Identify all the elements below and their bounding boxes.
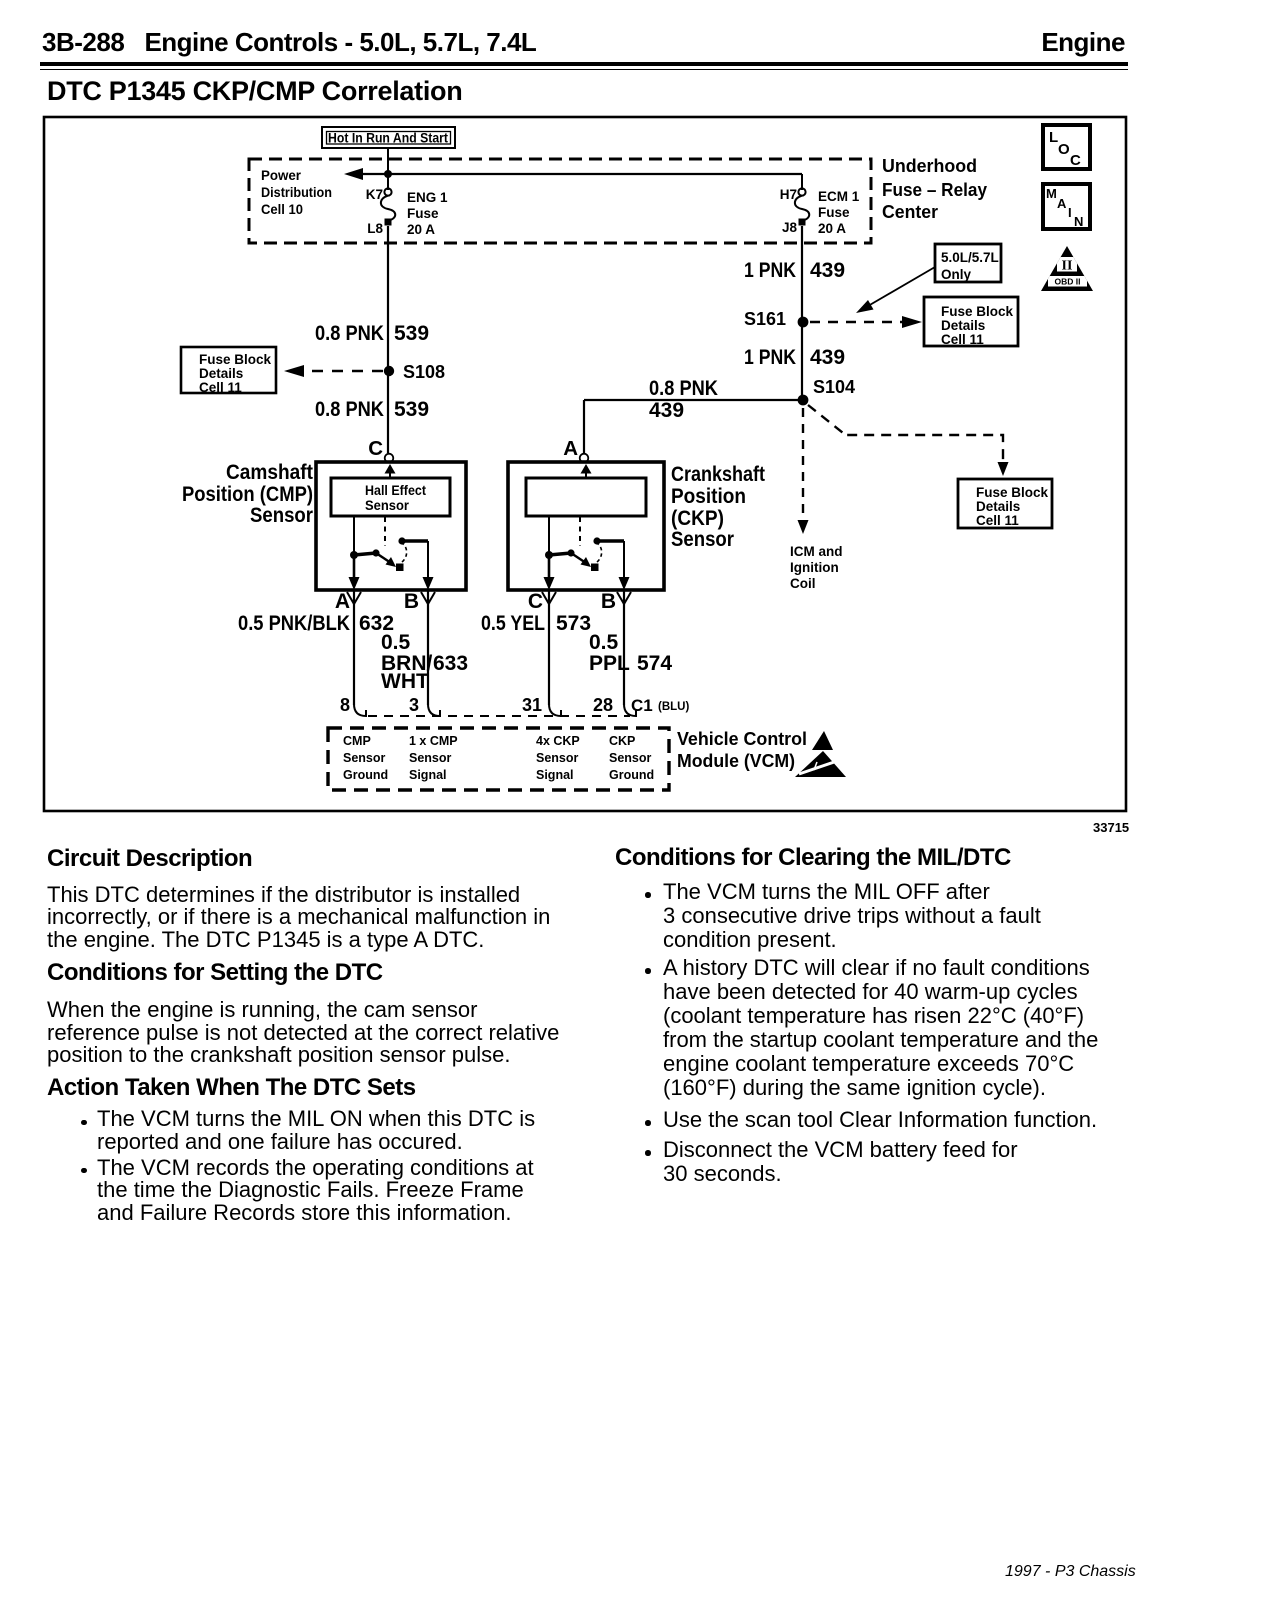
svg-text:3: 3 xyxy=(409,695,419,715)
svg-text:CMP: CMP xyxy=(343,734,371,748)
svg-text:Module (VCM): Module (VCM) xyxy=(677,751,795,771)
feed wire with left arrow xyxy=(344,168,802,180)
svg-text:I: I xyxy=(1068,205,1072,220)
VCM pin function labels xyxy=(343,734,654,782)
svg-text:Underhood: Underhood xyxy=(882,156,977,176)
svg-text:N: N xyxy=(1074,214,1083,229)
svg-text:Details: Details xyxy=(941,318,985,333)
svg-text:OBD II: OBD II xyxy=(1055,277,1081,287)
svg-text:0.8 PNK: 0.8 PNK xyxy=(315,398,384,421)
Fuse Block Details Cell 11 box (middle right) xyxy=(924,297,1018,347)
svg-text:20 A: 20 A xyxy=(818,221,846,236)
svg-text:Hot In Run And Start: Hot In Run And Start xyxy=(328,131,448,146)
svg-text:S108: S108 xyxy=(403,362,445,382)
svg-text:8: 8 xyxy=(340,695,350,715)
Hot In Run And Start box xyxy=(322,127,455,148)
connector V at CKP C xyxy=(542,592,556,604)
svg-text:II: II xyxy=(1062,259,1073,274)
svg-text:Fuse Block: Fuse Block xyxy=(941,304,1014,319)
svg-text:L8: L8 xyxy=(367,221,383,236)
svg-text:Cell 10: Cell 10 xyxy=(261,202,303,217)
splice S161 xyxy=(798,317,809,328)
dashed wire to fuse block details (left) xyxy=(284,365,383,377)
svg-text:574: 574 xyxy=(637,652,672,675)
svg-text:Camshaft: Camshaft xyxy=(226,461,313,484)
svg-text:Distribution: Distribution xyxy=(261,185,332,200)
wire label 0.8 PNK 539 lower xyxy=(315,398,429,421)
schematic frame xyxy=(44,117,1126,811)
CMP output arrows at A and B xyxy=(349,557,434,590)
svg-text:Power: Power xyxy=(261,168,302,183)
svg-text:Fuse Block: Fuse Block xyxy=(199,352,272,367)
MAIN icon xyxy=(1043,184,1090,229)
svg-text:Details: Details xyxy=(976,499,1020,514)
svg-text:539: 539 xyxy=(394,322,429,345)
CKP inner element box xyxy=(526,478,646,516)
arrow from 5.0L box to S161 xyxy=(856,267,935,313)
Fuse Block Details Cell 11 box (left) xyxy=(181,347,276,395)
svg-text:PPL: PPL xyxy=(589,652,630,675)
wire label 1 PNK 439 lower xyxy=(744,346,845,369)
svg-text:ECM 1: ECM 1 xyxy=(818,189,860,204)
svg-text:O: O xyxy=(1058,141,1070,158)
svg-text:0.5 YEL: 0.5 YEL xyxy=(481,612,545,635)
page header right xyxy=(1041,29,1125,55)
wire label 0.5 YEL 573 xyxy=(481,612,591,635)
svg-text:Center: Center xyxy=(882,202,938,222)
terminal C of CMP xyxy=(368,437,393,462)
svg-text:ENG 1: ENG 1 xyxy=(407,190,448,205)
svg-text:1 PNK: 1 PNK xyxy=(744,259,796,282)
connector C1 label xyxy=(631,696,689,715)
svg-text:Signal: Signal xyxy=(409,768,447,782)
svg-text:Vehicle Control: Vehicle Control xyxy=(677,729,807,749)
figure number xyxy=(1093,820,1129,835)
svg-text:573: 573 xyxy=(556,612,591,635)
svg-text:J8: J8 xyxy=(782,220,798,235)
svg-text:Position: Position xyxy=(671,485,746,508)
connector hook pin 31 xyxy=(549,704,561,716)
svg-text:20 A: 20 A xyxy=(407,222,435,237)
svg-text:439: 439 xyxy=(810,259,845,282)
svg-text:B: B xyxy=(404,590,419,613)
svg-text:Details: Details xyxy=(199,366,243,381)
Underhood Fuse-Relay Center label xyxy=(882,156,987,222)
svg-text:0.8 PNK: 0.8 PNK xyxy=(649,377,718,400)
connector hook pin 28 xyxy=(624,704,636,716)
page header left xyxy=(42,29,536,55)
ESD symbol xyxy=(795,731,846,777)
svg-text:Sensor: Sensor xyxy=(365,498,410,513)
svg-text:1 PNK: 1 PNK xyxy=(744,346,796,369)
svg-text:28: 28 xyxy=(593,695,613,715)
OBD II icon xyxy=(1041,246,1093,291)
5.0L/5.7L Only box xyxy=(935,244,1001,282)
CMP switch internals xyxy=(350,516,428,578)
svg-text:C1: C1 xyxy=(631,696,653,715)
ICM and Ignition Coil label xyxy=(790,544,843,591)
fuse ECM1 value label xyxy=(818,189,860,236)
wire 439 vertical from ECM fuse xyxy=(801,226,803,400)
svg-text:Cell 11: Cell 11 xyxy=(976,513,1019,528)
wire label 1 PNK 439 upper xyxy=(744,259,845,282)
Power Distribution label xyxy=(261,168,332,217)
dashed wire S104 down to ICM xyxy=(798,408,809,534)
wire label 0.5 BRN/WHT 633 xyxy=(381,631,468,693)
svg-text:C: C xyxy=(1070,152,1081,169)
fuse ENG1 value label xyxy=(407,190,448,237)
wire 439 down to terminal A xyxy=(583,400,585,453)
svg-text:Sensor: Sensor xyxy=(409,751,452,765)
wire 632 xyxy=(353,590,355,705)
svg-text:ICM and: ICM and xyxy=(790,544,843,559)
svg-text:0.8 PNK: 0.8 PNK xyxy=(315,322,384,345)
connector V at CKP B xyxy=(617,592,631,604)
connector V at CMP B xyxy=(421,592,435,604)
svg-text:0.5: 0.5 xyxy=(381,631,411,654)
wire 573 xyxy=(548,590,550,705)
svg-text:439: 439 xyxy=(649,399,684,422)
connector hook pin 3 xyxy=(428,704,440,716)
wire 439 horizontal to CKP xyxy=(584,399,801,401)
svg-text:M: M xyxy=(1046,186,1057,201)
svg-text:439: 439 xyxy=(810,346,845,369)
svg-text:Ground: Ground xyxy=(609,768,654,782)
wire label 0.5 PNK/BLK 632 xyxy=(238,612,394,635)
arrow up to terminal C inside CMP xyxy=(385,464,396,478)
footer xyxy=(1005,1564,1136,1580)
wire label 0.8 PNK 539 upper xyxy=(315,322,429,345)
Power Distribution dashed box xyxy=(249,159,871,243)
CKP output arrows at C and B xyxy=(544,557,630,590)
svg-text:Cell 11: Cell 11 xyxy=(941,332,984,347)
svg-text:Signal: Signal xyxy=(536,768,574,782)
CKP sensor box xyxy=(508,462,664,590)
svg-text:Sensor: Sensor xyxy=(343,751,386,765)
wire down to ECM fuse xyxy=(801,174,803,190)
svg-text:A: A xyxy=(563,437,578,460)
svg-text:Sensor: Sensor xyxy=(536,751,579,765)
Crankshaft Position (CKP) Sensor label xyxy=(671,463,765,551)
wire label 0.8 PNK 439 xyxy=(649,377,718,422)
svg-text:C: C xyxy=(528,590,543,613)
Hall Effect Sensor box xyxy=(331,478,450,516)
VCM dashed box xyxy=(328,728,669,790)
svg-text:C: C xyxy=(368,437,383,460)
svg-text:H7: H7 xyxy=(780,187,797,202)
wire from Hot box down xyxy=(387,148,389,190)
svg-text:Fuse: Fuse xyxy=(407,206,439,221)
svg-text:Sensor: Sensor xyxy=(671,528,734,551)
arrow up to terminal A inside CKP xyxy=(581,464,592,478)
svg-text:Position (CMP): Position (CMP) xyxy=(182,483,313,506)
svg-text:0.5: 0.5 xyxy=(589,631,619,654)
svg-text:A: A xyxy=(335,590,350,613)
svg-text:4x CKP: 4x CKP xyxy=(536,734,580,748)
Vehicle Control Module (VCM) label xyxy=(677,729,807,771)
svg-text:Fuse – Relay: Fuse – Relay xyxy=(882,180,987,200)
svg-text:539: 539 xyxy=(394,398,429,421)
connector V at CMP A xyxy=(347,592,361,604)
Camshaft Position (CMP) Sensor label xyxy=(182,461,313,527)
page title xyxy=(47,78,462,105)
svg-text:Fuse: Fuse xyxy=(818,205,850,220)
Circuit Description section xyxy=(47,847,252,871)
svg-text:Crankshaft: Crankshaft xyxy=(671,463,765,486)
dashed wire S104 to fuse block details (lower right) xyxy=(808,405,1009,476)
svg-text:B: B xyxy=(601,590,616,613)
svg-text:Ground: Ground xyxy=(343,768,388,782)
svg-text:Sensor: Sensor xyxy=(250,504,313,527)
svg-text:0.5 PNK/BLK: 0.5 PNK/BLK xyxy=(238,612,350,635)
header rule xyxy=(40,62,1128,70)
wire label 0.5 PPL 574 xyxy=(589,631,672,675)
splice S108 xyxy=(384,366,394,376)
terminal A of CKP xyxy=(563,437,588,462)
svg-text:WHT: WHT xyxy=(381,670,429,693)
CKP switch internals xyxy=(545,516,624,578)
wire 633 xyxy=(427,590,429,705)
wire 574 xyxy=(623,590,625,705)
svg-text:Fuse Block: Fuse Block xyxy=(976,485,1049,500)
connector C1 dashed line xyxy=(368,715,630,717)
svg-text:CKP: CKP xyxy=(609,734,635,748)
svg-text:(BLU): (BLU) xyxy=(658,701,689,713)
svg-text:Coil: Coil xyxy=(790,576,816,591)
svg-text:Ignition: Ignition xyxy=(790,560,839,575)
CMP sensor box xyxy=(316,462,466,590)
svg-text:31: 31 xyxy=(522,695,542,715)
svg-text:1 x CMP: 1 x CMP xyxy=(409,734,458,748)
fuse ECM1 xyxy=(795,188,809,225)
svg-text:Cell 11: Cell 11 xyxy=(199,380,242,395)
svg-text:Only: Only xyxy=(941,267,971,282)
junction dot xyxy=(384,170,392,178)
svg-text:A: A xyxy=(1057,196,1067,211)
wire 539 from fuse to CMP xyxy=(387,226,389,453)
connector hook pin 8 xyxy=(354,704,366,716)
svg-text:Sensor: Sensor xyxy=(609,751,652,765)
svg-text:S161: S161 xyxy=(744,309,786,329)
LOC icon xyxy=(1043,125,1090,169)
Fuse Block Details Cell 11 box (lower right) xyxy=(958,479,1052,528)
svg-text:633: 633 xyxy=(433,652,468,675)
dashed wire S161 to fuse block details (right) xyxy=(810,316,922,328)
svg-text:(CKP): (CKP) xyxy=(671,507,724,530)
svg-text:S104: S104 xyxy=(813,377,855,397)
Conditions for Clearing section xyxy=(615,846,1011,870)
svg-text:L: L xyxy=(1049,129,1058,146)
svg-text:Hall Effect: Hall Effect xyxy=(365,483,426,498)
splice S104 xyxy=(798,395,809,406)
fuse ENG1 xyxy=(381,188,395,225)
svg-text:5.0L/5.7L: 5.0L/5.7L xyxy=(941,250,999,265)
svg-text:K7: K7 xyxy=(366,187,383,202)
